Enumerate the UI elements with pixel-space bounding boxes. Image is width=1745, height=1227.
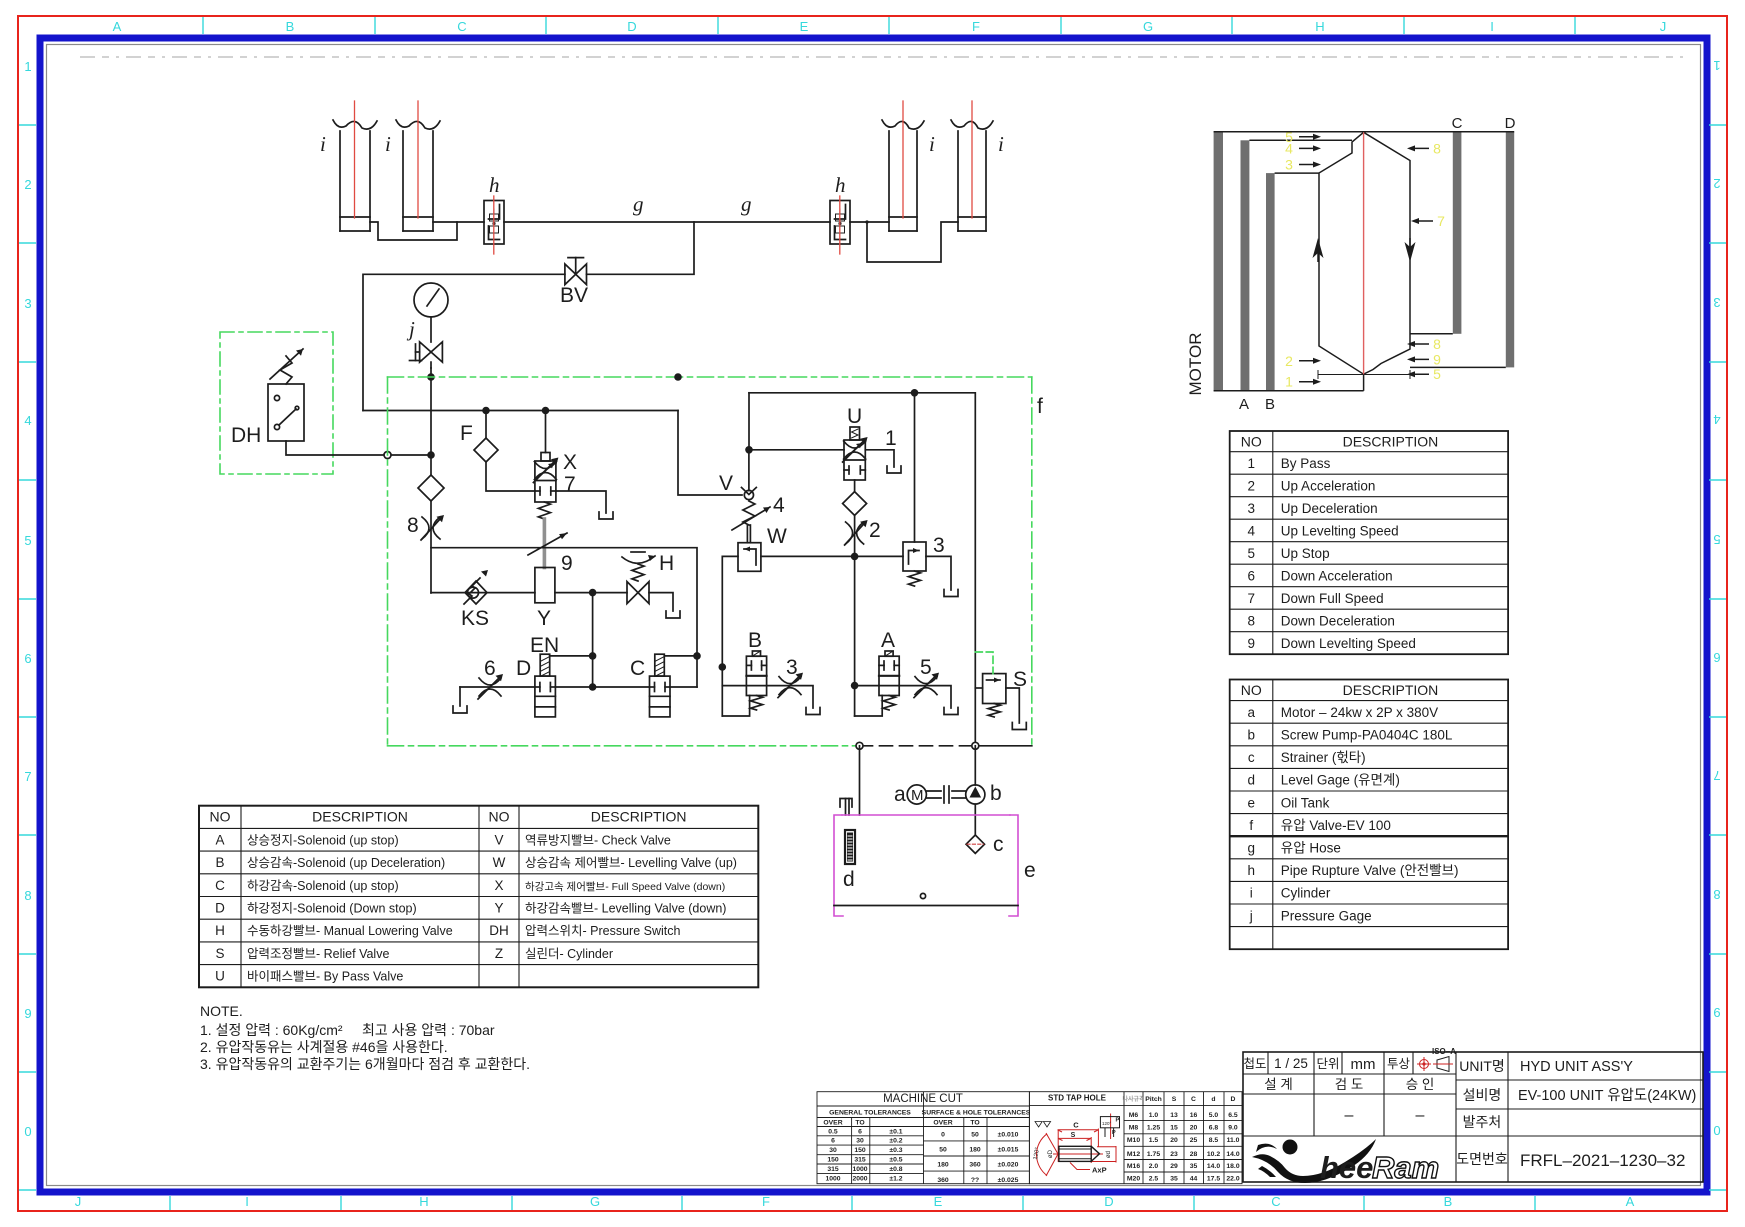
svg-text:i: i (1250, 886, 1253, 901)
svg-text:M: M (911, 787, 924, 804)
node junction 854.6,685.6 (851, 682, 859, 690)
svg-text:11.0: 11.0 (1227, 1137, 1240, 1144)
svg-text:S: S (1071, 1132, 1076, 1139)
node green boundary crossing (427, 373, 435, 381)
return elbow symbol (840, 799, 852, 808)
svg-text:G: G (1143, 19, 1153, 34)
svg-text:Up Deceleration: Up Deceleration (1281, 501, 1378, 516)
svg-text:2.5: 2.5 (1149, 1175, 1159, 1182)
svg-text:2000: 2000 (852, 1175, 867, 1182)
solenoid valve A (879, 629, 899, 696)
svg-text:OVER: OVER (933, 1120, 952, 1127)
wire A drain U (855, 696, 883, 717)
svg-text:A: A (1626, 1194, 1635, 1209)
svg-text:F: F (762, 1194, 770, 1209)
svg-text:14.0: 14.0 (1226, 1151, 1239, 1158)
svg-text:50: 50 (939, 1147, 947, 1154)
svg-text:18.0: 18.0 (1226, 1163, 1239, 1170)
node W bus dot (719, 663, 727, 671)
svg-text:ød: ød (1106, 1151, 1112, 1158)
svg-text:M6: M6 (1129, 1112, 1139, 1119)
wire cylinder U pipe right (867, 222, 958, 262)
svg-text:0: 0 (1713, 1123, 1720, 1138)
svg-text:Motor – 24kw x 2P x 380V: Motor – 24kw x 2P x 380V (1281, 705, 1438, 720)
svg-text:투상: 투상 (1387, 1057, 1411, 1071)
svg-text:a: a (1247, 705, 1255, 720)
wire subcircuit top (431, 548, 697, 687)
svg-text:1.5: 1.5 (1149, 1137, 1159, 1144)
svg-text:0: 0 (941, 1132, 945, 1139)
wire BV branch (587, 222, 695, 274)
svg-text:1. 설정 압력 : 60Kg/cm² 최고 사용: 1. 설정 압력 : 60Kg/cm² 최고 사용 압력 : 70bar (200, 1022, 495, 1038)
svg-text:Down Levelting Speed: Down Levelting Speed (1281, 636, 1416, 651)
svg-text:20: 20 (1170, 1137, 1178, 1144)
svg-text:DH: DH (489, 923, 509, 938)
svg-text:상승감속-Solenoid (up Deceleration: 상승감속-Solenoid (up Deceleration) (247, 856, 445, 870)
wire U bottom (854, 480, 856, 492)
svg-text:FRFL–2021–1230–32: FRFL–2021–1230–32 (1520, 1151, 1685, 1170)
title block (1243, 1052, 1703, 1182)
svg-text:C: C (1073, 1121, 1079, 1130)
svg-text:2: 2 (1285, 353, 1293, 369)
svg-text:Down Deceleration: Down Deceleration (1281, 613, 1395, 628)
node junction 486,410.5 (482, 407, 490, 415)
svg-text:f: f (1037, 395, 1043, 418)
svg-text:5: 5 (24, 533, 31, 548)
svg-text:25: 25 (1190, 1137, 1198, 1144)
svg-text:V: V (494, 832, 503, 847)
wire DC line mid (555, 686, 649, 688)
svg-text:hee: hee (1320, 1150, 1373, 1185)
svg-text:M16: M16 (1127, 1163, 1140, 1170)
svg-text:Y: Y (494, 901, 503, 916)
svg-text:±0.3: ±0.3 (889, 1147, 902, 1154)
svg-text:5: 5 (1247, 546, 1255, 561)
svg-text:3: 3 (24, 296, 31, 311)
svg-text:b: b (990, 782, 1002, 805)
svg-text:U: U (215, 969, 225, 984)
svg-text:4: 4 (773, 494, 785, 517)
svg-text:120°: 120° (1102, 1121, 1112, 1126)
svg-text:6: 6 (1713, 650, 1720, 665)
valve X full-speed (down) (533, 411, 577, 503)
wire W right to 3 (761, 555, 903, 557)
svg-text:i: i (929, 132, 935, 156)
svg-text:NO: NO (1241, 682, 1262, 698)
enclosure DH (green dashed) (220, 332, 333, 474)
svg-text:D: D (516, 657, 531, 680)
node junction 854.6,556.4 (851, 553, 859, 561)
spring B (751, 696, 763, 711)
svg-text:f: f (1249, 818, 1253, 833)
wire gauge to filter (430, 368, 432, 475)
svg-text:Y: Y (537, 607, 551, 630)
svg-text:9: 9 (1247, 636, 1255, 651)
table: description 1-9 (1230, 431, 1508, 654)
oil tank e (magenta) (834, 815, 1018, 916)
svg-text:Up Levelting Speed: Up Levelting Speed (1281, 523, 1399, 538)
svg-text:V: V (719, 472, 733, 495)
wire cylinder U pipe left (370, 222, 457, 240)
tank drain symbol (944, 708, 958, 715)
check valve V (719, 472, 756, 500)
node boundary circle (384, 452, 391, 459)
svg-text:H: H (215, 923, 225, 938)
svg-text:STD TAP HOLE: STD TAP HOLE (1048, 1094, 1107, 1103)
svg-text:By Pass: By Pass (1281, 456, 1331, 471)
svg-text:8: 8 (407, 514, 419, 537)
flow control KS (461, 570, 489, 630)
svg-text:DESCRIPTION: DESCRIPTION (312, 809, 408, 825)
svg-text:U: U (847, 405, 862, 428)
svg-text:A: A (1239, 396, 1249, 413)
filter F (460, 411, 535, 492)
throttle 3b (778, 656, 803, 698)
svg-text:i: i (998, 132, 1004, 156)
svg-text:150: 150 (827, 1157, 839, 1164)
arrow down (1405, 242, 1416, 262)
svg-text:C: C (1271, 1194, 1280, 1209)
svg-text:2: 2 (1247, 478, 1255, 493)
svg-text:0.5: 0.5 (828, 1128, 838, 1135)
svg-text:M12: M12 (1127, 1151, 1140, 1158)
table: MACHINE CUT tolerances (817, 1092, 1029, 1184)
rod 9 (thick) (543, 519, 547, 568)
wire U feed (749, 449, 844, 451)
svg-text:A: A (113, 19, 122, 34)
valve W levelling (up) (738, 525, 787, 571)
svg-text:B: B (286, 19, 295, 34)
node junction 592.6,687 (589, 683, 597, 691)
svg-text:13: 13 (1170, 1112, 1178, 1119)
svg-text:OVER: OVER (823, 1120, 842, 1127)
svg-text:DESCRIPTION: DESCRIPTION (1343, 682, 1439, 698)
tank drain symbol (453, 706, 467, 713)
svg-text:M20: M20 (1127, 1175, 1140, 1182)
svg-text:6.5: 6.5 (1228, 1112, 1238, 1119)
svg-text:180: 180 (937, 1162, 949, 1169)
wire DH pilot (286, 441, 384, 455)
svg-text:GENERAL TOLERANCES: GENERAL TOLERANCES (829, 1110, 911, 1117)
logo WheeRam (1252, 1139, 1439, 1185)
svg-text:±0.010: ±0.010 (998, 1132, 1019, 1139)
svg-text:3: 3 (786, 656, 798, 679)
svg-text:±0.025: ±0.025 (998, 1177, 1019, 1184)
svg-text:NOTE.: NOTE. (200, 1003, 243, 1019)
svg-text:D: D (215, 901, 225, 916)
svg-text:3: 3 (933, 534, 945, 557)
node junction 592.6,655.9 (589, 652, 597, 660)
svg-text:d: d (1211, 1096, 1215, 1103)
svg-text:–: – (1416, 1107, 1425, 1124)
svg-text:35: 35 (1170, 1175, 1178, 1182)
motor a (894, 783, 926, 806)
throttle 5 (914, 656, 939, 698)
svg-text:5: 5 (920, 656, 932, 679)
svg-text:2: 2 (869, 519, 881, 542)
strainer c (966, 833, 1003, 856)
svg-text:유압 Hose: 유압 Hose (1281, 841, 1341, 856)
svg-text:B: B (748, 629, 762, 652)
svg-text:±1.2: ±1.2 (889, 1175, 902, 1182)
svg-text:B: B (215, 855, 224, 870)
wire W left port (722, 556, 738, 716)
svg-text:1000: 1000 (825, 1175, 840, 1182)
wire S drain (1006, 688, 1019, 723)
svg-text:압력스위치- Pressure Switch: 압력스위치- Pressure Switch (525, 924, 680, 938)
svg-text:하강감속-Solenoid (up stop): 하강감속-Solenoid (up stop) (247, 879, 399, 893)
svg-text:g: g (1247, 841, 1255, 856)
svg-text:0: 0 (24, 1124, 31, 1139)
svg-text:9: 9 (561, 552, 573, 575)
svg-text:17.5: 17.5 (1207, 1175, 1220, 1182)
rotor lens shape (1319, 132, 1410, 374)
faint gray dashed strip (80, 56, 1688, 58)
svg-text:BV: BV (560, 284, 588, 307)
tank floor (834, 905, 1018, 907)
svg-text:Up Stop: Up Stop (1281, 546, 1330, 561)
svg-text:첩도: 첩도 (1243, 1057, 1266, 1071)
solenoid valve C (630, 654, 670, 717)
wire U feed vertical (748, 393, 750, 450)
svg-text:X: X (494, 878, 503, 893)
valve BV ball valve (560, 258, 588, 307)
svg-text:P: P (1112, 1130, 1116, 1136)
svg-text:NO: NO (489, 809, 510, 825)
svg-text:설 계: 설 계 (1264, 1077, 1293, 1092)
svg-text:20: 20 (1190, 1125, 1198, 1132)
svg-text:±0.5: ±0.5 (889, 1157, 902, 1164)
svg-text:6: 6 (484, 657, 496, 680)
note text (200, 1003, 530, 1072)
svg-text:역류방지빨브- Check Valve: 역류방지빨브- Check Valve (525, 833, 671, 847)
tank drain symbol (599, 512, 613, 519)
svg-text:5: 5 (1713, 532, 1720, 547)
wire solenoid pilot bus (592, 593, 594, 687)
svg-text:J: J (1660, 19, 1667, 34)
svg-text:H: H (1315, 19, 1324, 34)
svg-text:TO: TO (855, 1120, 864, 1127)
svg-text:1000: 1000 (852, 1166, 867, 1173)
svg-text:h: h (1247, 863, 1255, 878)
svg-text:W: W (767, 525, 787, 548)
svg-text:B: B (1444, 1194, 1453, 1209)
node cylinder tee (866, 221, 868, 223)
svg-text:14.0: 14.0 (1207, 1163, 1220, 1170)
throttle 2 (845, 519, 881, 545)
rotor red axis (1363, 132, 1365, 374)
svg-text:1: 1 (1713, 58, 1720, 73)
svg-text:50: 50 (971, 1132, 979, 1139)
node DH tap (427, 451, 435, 459)
table: description a-j (1230, 680, 1508, 950)
svg-text:b: b (1247, 728, 1255, 743)
svg-text:j: j (1249, 908, 1253, 923)
svg-text:Pitch: Pitch (1145, 1096, 1162, 1103)
svg-text:J: J (75, 1194, 82, 1209)
svg-text:C: C (215, 878, 225, 893)
wire dot to V (748, 450, 750, 491)
spring 4 levelling (732, 494, 785, 530)
svg-text:E: E (934, 1194, 943, 1209)
svg-text:M8: M8 (1129, 1125, 1139, 1132)
svg-text:1: 1 (1247, 456, 1255, 471)
arrow up (1313, 238, 1324, 258)
svg-text:A: A (215, 832, 224, 847)
svg-text:±0.1: ±0.1 (889, 1128, 902, 1135)
pipe rupture valve h (830, 173, 850, 254)
svg-text:8: 8 (1247, 613, 1255, 628)
wire motor tap lines (1249, 139, 1352, 141)
svg-text:Screw Pump-PA0404C 180L: Screw Pump-PA0404C 180L (1281, 728, 1453, 743)
svg-text:6: 6 (1247, 568, 1255, 583)
svg-text:e: e (1024, 859, 1036, 882)
svg-text:Strainer (헋타): Strainer (헋타) (1281, 750, 1366, 765)
svg-text:M10: M10 (1127, 1137, 1140, 1144)
svg-text:TO: TO (970, 1120, 979, 1127)
svg-text:6.8: 6.8 (1209, 1125, 1219, 1132)
spring A (883, 696, 895, 711)
solenoid valve B (746, 629, 766, 696)
svg-text:mm: mm (1351, 1056, 1376, 1073)
svg-text:i: i (320, 132, 326, 156)
svg-text:1.75: 1.75 (1147, 1151, 1160, 1158)
svg-text:15: 15 (1170, 1125, 1178, 1132)
svg-text:3. 유압작동유의 교환주기는 6개월마다 점검 후 교환한: 3. 유압작동유의 교환주기는 6개월마다 점검 후 교환한다. (200, 1056, 530, 1072)
svg-text:DESCRIPTION: DESCRIPTION (1343, 433, 1439, 449)
svg-text:W: W (493, 855, 506, 870)
svg-text:5: 5 (1433, 366, 1441, 382)
svg-text:바이패스빨브- By Pass Valve: 바이패스빨브- By Pass Valve (247, 970, 403, 984)
svg-text:ISO–A: ISO–A (1432, 1047, 1456, 1056)
level gage d (843, 830, 855, 891)
wire S inlet (975, 687, 982, 689)
motor top rail (1214, 131, 1515, 133)
wire suction header dashed (860, 745, 976, 747)
svg-text:h: h (835, 173, 846, 197)
svg-text:HYD UNIT ASS'Y: HYD UNIT ASS'Y (1520, 1059, 1633, 1075)
svg-text:Ram: Ram (1372, 1150, 1439, 1185)
svg-text:35: 35 (1190, 1163, 1198, 1170)
svg-text:1: 1 (24, 59, 31, 74)
svg-text:10.2: 10.2 (1207, 1151, 1220, 1158)
measurement tick line (1318, 370, 1410, 379)
svg-text:22.0: 22.0 (1226, 1175, 1239, 1182)
wire return to tank (859, 746, 861, 815)
tank drain symbol (944, 590, 958, 597)
svg-text:±0.020: ±0.020 (998, 1162, 1019, 1169)
svg-text:16: 16 (1190, 1112, 1198, 1119)
enclosure f valve block (green dash-dot) (388, 377, 1032, 746)
svg-text:EV-100 UNIT 유압도(24KW): EV-100 UNIT 유압도(24KW) (1518, 1087, 1696, 1104)
wire C pilot (664, 655, 697, 657)
tank drain symbol (1012, 723, 1026, 730)
node C pilot (693, 652, 701, 660)
svg-text:H: H (659, 552, 674, 575)
wire B line (722, 685, 746, 687)
svg-text:2: 2 (24, 177, 31, 192)
node junction 545.5,410.5 (542, 407, 550, 415)
svg-text:Pipe Rupture Valve (안전빨브): Pipe Rupture Valve (안전빨브) (1281, 863, 1459, 878)
cylinder i (882, 101, 935, 231)
svg-text:하강고속 제어빨브- Full Speed Valve (d: 하강고속 제어빨브- Full Speed Valve (down) (525, 880, 725, 893)
svg-text:승 인: 승 인 (1406, 1077, 1435, 1092)
svg-text:NO: NO (210, 809, 231, 825)
svg-text:E: E (800, 19, 809, 34)
svg-text:6: 6 (831, 1138, 835, 1145)
filter 2 diamond (843, 492, 867, 516)
svg-text:360: 360 (937, 1177, 949, 1184)
svg-text:D: D (1231, 1096, 1236, 1103)
svg-text:9: 9 (1433, 351, 1441, 367)
wire D line (460, 686, 535, 688)
svg-text:??: ?? (971, 1177, 979, 1184)
wire X drain (556, 491, 606, 513)
wire main cylinder line (433, 221, 484, 223)
wire KS line (431, 592, 535, 594)
svg-text:발주처: 발주처 (1463, 1114, 1502, 1130)
svg-text:1.0: 1.0 (1149, 1112, 1159, 1119)
node f boundary dot (674, 373, 682, 381)
wire bottom right solid (975, 745, 1032, 747)
node suction circle right (972, 742, 979, 749)
svg-text:H: H (419, 1194, 428, 1209)
svg-text:설비명: 설비명 (1463, 1087, 1502, 1103)
pipe rupture valve h (484, 173, 504, 254)
valve Y levelling (down) (535, 568, 555, 631)
svg-text:1 / 25: 1 / 25 (1274, 1056, 1308, 1071)
svg-text:F: F (972, 19, 980, 34)
solenoid valve D (516, 654, 555, 717)
svg-text:X: X (563, 451, 577, 474)
svg-text:EN: EN (530, 634, 559, 657)
svg-text:8: 8 (1433, 140, 1441, 156)
svg-text:S: S (215, 946, 224, 961)
svg-text:KS: KS (461, 607, 489, 630)
tank drain symbol (666, 611, 680, 618)
svg-text:8.5: 8.5 (1209, 1137, 1219, 1144)
thick divider under f row (1230, 835, 1508, 837)
svg-text:1.25: 1.25 (1147, 1125, 1160, 1132)
pilot S (green dashed) (975, 652, 993, 674)
motor phase bars (gray) (1214, 132, 1515, 391)
svg-text:C: C (457, 19, 466, 34)
svg-text:23: 23 (1170, 1151, 1178, 1158)
svg-text:단위: 단위 (1316, 1057, 1339, 1071)
svg-text:P: P (1116, 1118, 1120, 1124)
svg-text:2. 유압작동유는 사계절용 #46을 사용한다.: 2. 유압작동유는 사계절용 #46을 사용한다. (200, 1039, 448, 1055)
drawing: tap hole bolt section (red/black) (1037, 1114, 1116, 1177)
pump b (966, 782, 1002, 805)
svg-text:Down Acceleration: Down Acceleration (1281, 568, 1393, 583)
cylinder i (320, 101, 377, 231)
svg-text:D: D (1104, 1194, 1113, 1209)
svg-text:h: h (489, 173, 500, 197)
svg-text:g: g (633, 192, 644, 216)
cylinder i (951, 101, 1004, 231)
svg-text:I: I (245, 1194, 249, 1209)
node KS line tee (589, 589, 597, 597)
svg-text:7: 7 (1247, 591, 1255, 606)
svg-text:AxP: AxP (1092, 1166, 1107, 1175)
svg-text:압력조정빨브- Relief Valve: 압력조정빨브- Relief Valve (247, 947, 389, 961)
svg-text:상승정지-Solenoid (up stop): 상승정지-Solenoid (up stop) (247, 833, 399, 847)
svg-text:7: 7 (24, 769, 31, 784)
wire A tank (899, 686, 951, 708)
wire pump pressure header (363, 410, 678, 412)
svg-text:B: B (1265, 396, 1275, 413)
valve H manual lowering (622, 552, 674, 604)
